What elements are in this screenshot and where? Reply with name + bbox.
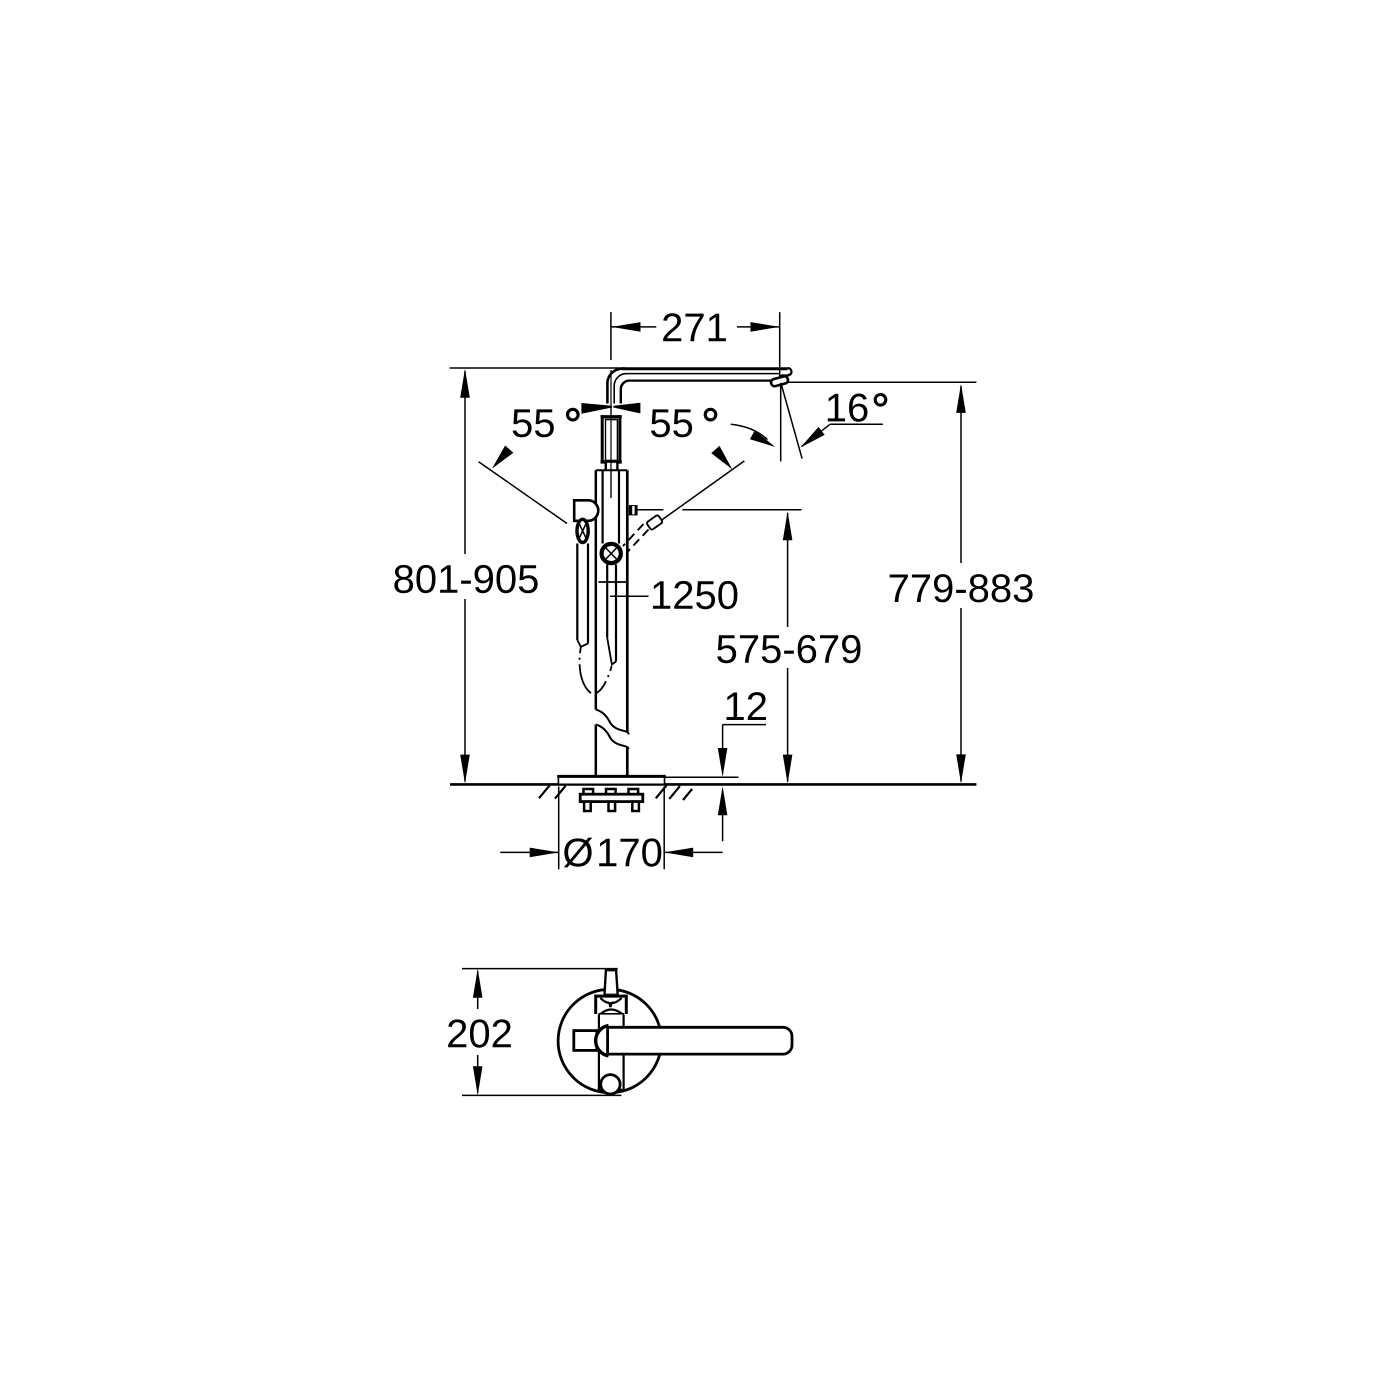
dimension 575-679 (height to side outlet) [717,511,860,783]
shower hose loop (1250 mm hose) [580,647,612,694]
dimension 801-905 (height to spout top) [394,369,537,784]
floor anchor with bolts [580,789,643,811]
55 deg swing line right [661,446,744,521]
16 deg rotation arc [731,424,776,447]
16 deg label leader [800,424,883,447]
202 top extension line [462,968,618,970]
lever hub (top view) [596,1026,609,1056]
label 16 deg [828,393,886,421]
hand-shower hose tube in column [607,565,616,665]
16 deg slant line [781,383,802,459]
floor base plate [557,776,666,784]
side outlet connector [629,505,638,515]
centerline of spout riser [610,370,612,498]
202 bottom extension line [462,1094,621,1096]
floor line [450,783,976,786]
hand shower alternate position (dashed, 55 deg) [623,515,663,552]
holder pivot joint [577,519,588,542]
dimension diameter 170 (base plate) [500,787,722,870]
floor hatch marks [539,785,692,800]
riser neck [606,463,618,471]
drain knob circle (top view) [601,1075,620,1094]
dimension 271 (spout projection) [611,312,780,377]
spout tube (271 mm projection) [607,368,791,404]
16 deg vertical reference [780,383,782,462]
escutcheon circle (top view) [558,989,661,1092]
hand-shower holder bracket [574,500,598,521]
spout aerator outlet [770,376,788,387]
mounting column (riser pipe) [596,470,628,776]
pipe break squiggle [596,710,629,749]
cartridge housing lower (top view) [598,1015,625,1091]
handle stub (top view) [574,1031,597,1051]
swivel ball joint [602,544,621,563]
dimension 12 (plate height) [718,692,766,841]
riser shank (top view) [605,970,618,995]
extension line: side outlet height [637,509,802,511]
dimension 779-883 (height to outlet) [890,384,1033,784]
extension line: spout outlet height [786,381,976,383]
label 55 deg right [651,409,716,437]
label 55 deg left [513,409,578,437]
dimension 202 (top view depth) [448,969,511,1095]
55 deg swing line left [479,446,567,524]
spout bar (top view) [608,1027,792,1054]
plate top extension line [665,776,739,778]
spout shank (riser upper section) [601,415,622,463]
swivel arc double arrowheads (spout rotation) [581,403,640,414]
extension line: top height reference [450,367,625,369]
leader and label 1250 (hose length) [610,581,737,609]
cartridge housing (top view) [595,995,628,1015]
centerline through shank [610,408,612,498]
hand-shower wand [577,544,588,647]
